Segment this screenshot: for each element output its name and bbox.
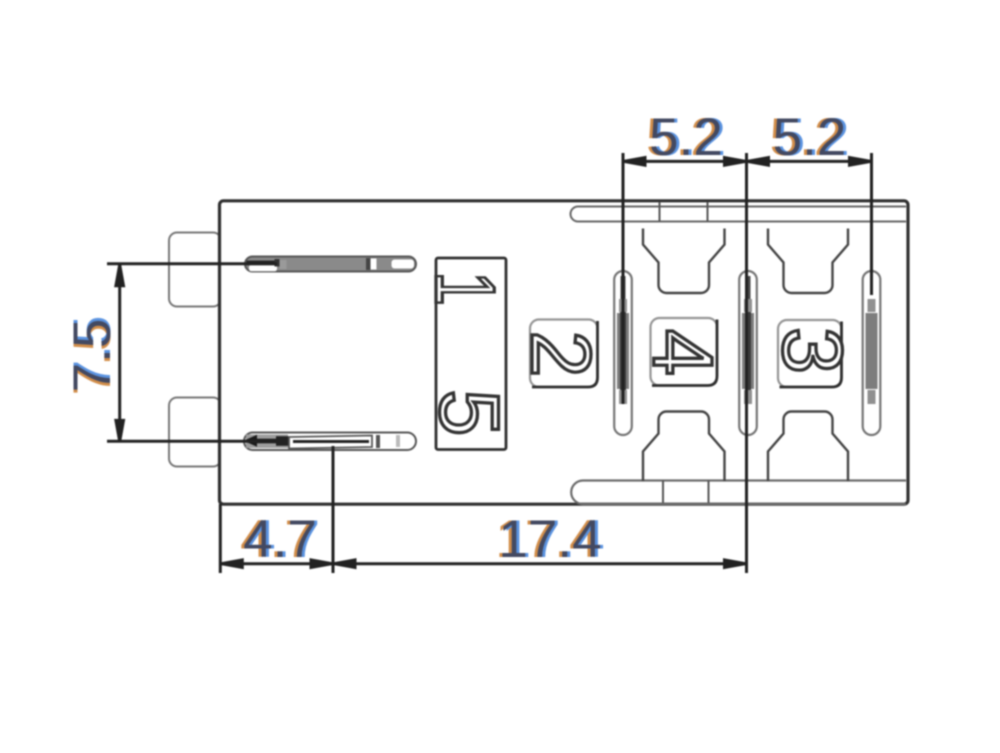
- svg-text:4.7: 4.7: [243, 510, 317, 569]
- svg-text:7.5: 7.5: [63, 319, 122, 393]
- svg-text:2: 2: [514, 331, 608, 378]
- svg-text:5.2: 5.2: [649, 108, 723, 167]
- svg-text:5.2: 5.2: [773, 108, 847, 167]
- svg-text:5: 5: [423, 389, 517, 436]
- svg-text:4: 4: [636, 329, 730, 376]
- svg-text:3: 3: [766, 327, 860, 374]
- svg-text:17.4: 17.4: [498, 510, 601, 569]
- svg-text:1: 1: [418, 271, 513, 305]
